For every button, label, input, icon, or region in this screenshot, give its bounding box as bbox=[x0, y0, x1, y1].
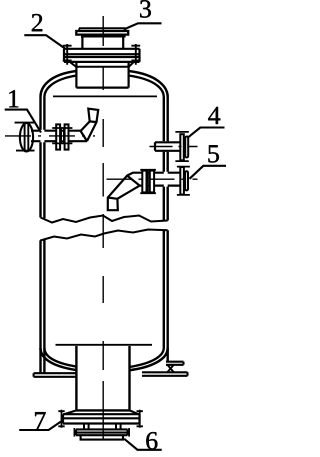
N1 flange bolt bars bbox=[52, 128, 72, 143]
manhole neck hub line bbox=[76, 66, 128, 68]
shell lower right wall and skirt bbox=[164, 230, 168, 362]
leader 5 bbox=[190, 166, 227, 179]
lower break line bbox=[40, 230, 167, 241]
nozzle N3 gasket line bbox=[81, 35, 126, 37]
N5 inner bolt bars bbox=[140, 170, 156, 193]
N1 internal elbow bbox=[81, 109, 99, 142]
N1 inner flange plate a bbox=[56, 124, 60, 149]
F6 bolts bbox=[74, 428, 129, 437]
nozzle N3 flange plate bbox=[76, 31, 128, 35]
N4 cover disc bbox=[185, 137, 188, 158]
label 1 bbox=[9, 90, 18, 107]
N5 cover disc bbox=[185, 171, 188, 190]
leader 6 bbox=[124, 439, 162, 450]
N4 bolt bars bbox=[175, 132, 188, 161]
N5 outer flange plate bbox=[180, 167, 184, 195]
F7 left bolt bbox=[58, 410, 64, 428]
N1 pipe between plates bbox=[60, 131, 65, 142]
leader 2 bbox=[24, 35, 65, 48]
manhole neck box bbox=[76, 62, 128, 88]
nozzle N5 centerline bbox=[107, 178, 198, 180]
top head tangent seam bbox=[53, 95, 157, 97]
F2 left bolt bbox=[63, 44, 72, 65]
N1 bolt bars bbox=[15, 123, 35, 151]
top head outer contour bbox=[41, 71, 168, 97]
bottom head inner contour bbox=[44, 348, 163, 367]
leader 1 bbox=[5, 110, 41, 133]
shell lower left wall and skirt bbox=[41, 239, 45, 373]
leader 7 bbox=[19, 422, 61, 431]
N1 pipe outside bbox=[31, 131, 41, 142]
leader 4 bbox=[189, 128, 225, 137]
F7 right bolt bbox=[137, 410, 143, 428]
bottom nozzle flare bbox=[64, 410, 139, 414]
nozzle N3 cover line bbox=[79, 28, 126, 31]
N5 outer bolt bars bbox=[177, 167, 190, 195]
N1 pipe inside wall bbox=[44, 131, 56, 142]
support right base bbox=[142, 372, 188, 376]
shell upper right wall bbox=[164, 97, 168, 221]
N5 inner flange plate b bbox=[150, 171, 154, 193]
N1 inner flange plate b bbox=[65, 124, 69, 149]
label 5 bbox=[208, 145, 218, 162]
upper break line bbox=[41, 216, 168, 223]
N1 pipe to elbow bbox=[69, 131, 88, 142]
flange F6 bbox=[76, 429, 128, 435]
label 4 bbox=[208, 107, 220, 124]
bottom head tangent seam bbox=[56, 344, 153, 346]
N5 inner flange plate a bbox=[142, 171, 146, 193]
bottom head outer contour bbox=[41, 348, 168, 370]
support right top bar bbox=[166, 362, 184, 365]
N1 outer flange oval bbox=[20, 123, 33, 151]
N4 flange plate bbox=[180, 134, 184, 160]
label 2 bbox=[32, 14, 42, 31]
N4 pipe bbox=[155, 142, 180, 151]
nozzle N1 centerline bbox=[5, 135, 95, 137]
shell upper left wall bbox=[41, 97, 45, 218]
F2 right bolt bbox=[131, 44, 140, 65]
N1 flange face lines bbox=[25, 125, 29, 151]
leader 3 bbox=[124, 23, 162, 29]
support right web cross bbox=[167, 365, 174, 373]
bottom stub pipe bbox=[84, 424, 121, 430]
support left base bbox=[34, 373, 77, 377]
N5 inner bolt stud bbox=[147, 170, 149, 193]
flange F7 bbox=[63, 414, 140, 423]
N1 flange bolt studs bbox=[61, 128, 63, 143]
label 3 bbox=[140, 0, 151, 17]
label 7 bbox=[35, 412, 46, 429]
N5 internal elbow bbox=[108, 173, 143, 211]
F2 shoulder slants bbox=[70, 62, 134, 67]
manhole flange pair F2 bbox=[64, 49, 140, 62]
bottom nozzle neck box bbox=[76, 346, 129, 410]
F6 bottom cover bbox=[81, 435, 123, 439]
nozzle N4 centerline bbox=[150, 146, 198, 148]
vessel vertical centerline bbox=[102, 16, 104, 440]
N5 pipe between plates bbox=[147, 173, 150, 186]
top head inner contour bbox=[44, 76, 163, 98]
N5 pipe through wall bbox=[154, 173, 180, 186]
label 6 bbox=[146, 432, 157, 449]
nozzle N3 neck bbox=[82, 37, 123, 49]
